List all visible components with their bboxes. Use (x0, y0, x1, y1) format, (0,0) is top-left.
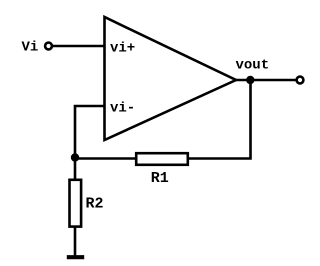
junction node A (71, 153, 79, 161)
terminal Vi (45, 43, 52, 50)
svg-text:Vi: Vi (22, 40, 39, 56)
op-amp U1 (105, 17, 237, 140)
resistor R2 (70, 180, 82, 227)
svg-text:R1: R1 (151, 170, 169, 187)
wire Vi input (52, 45, 105, 48)
svg-text:vi+: vi+ (110, 41, 135, 57)
wire R2 to ground (74, 226, 77, 257)
wire node A to R2 (74, 156, 77, 181)
resistor R1 (136, 153, 188, 165)
svg-text:R2: R2 (86, 195, 104, 212)
svg-text:vout: vout (236, 58, 270, 74)
junction vout (246, 76, 254, 84)
wire op-amp output (236, 79, 297, 82)
terminal vout (297, 77, 304, 84)
ground (67, 255, 84, 259)
wire vi- feedback tap (75, 106, 104, 156)
wire R1 to vout (188, 80, 251, 159)
svg-text:vi-: vi- (110, 101, 135, 117)
wire node A to R1 (75, 157, 137, 160)
